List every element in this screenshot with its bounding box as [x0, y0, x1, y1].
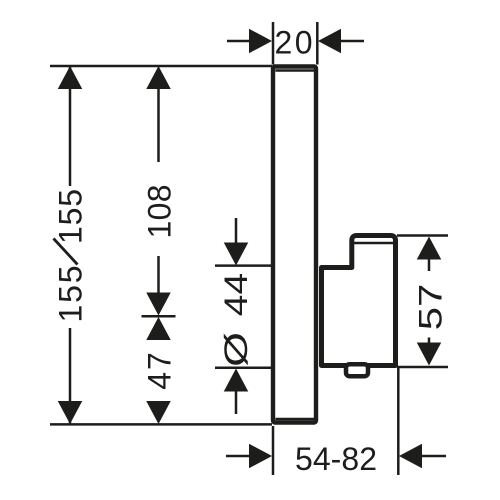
- svg-text:155: 155: [53, 266, 89, 323]
- svg-text:47: 47: [142, 352, 178, 390]
- svg-text:155: 155: [53, 189, 89, 244]
- svg-text:Ø: Ø: [219, 332, 254, 367]
- svg-text:20: 20: [275, 24, 313, 60]
- svg-text:108: 108: [142, 185, 178, 239]
- svg-text:44: 44: [218, 273, 254, 316]
- svg-text:54-82: 54-82: [295, 441, 377, 477]
- svg-text:57: 57: [412, 284, 448, 331]
